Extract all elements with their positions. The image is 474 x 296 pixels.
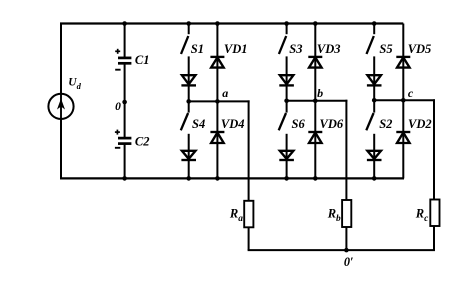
svg-text:VD5: VD5 xyxy=(408,42,432,56)
wire node a to VD4 xyxy=(216,101,218,143)
wire S4 to series diode xyxy=(188,134,190,161)
svg-text:S5: S5 xyxy=(379,42,392,56)
junction top rail / S3 xyxy=(284,21,289,26)
svg-text:VD2: VD2 xyxy=(408,117,432,131)
svg-text:0′: 0′ xyxy=(344,255,354,269)
label S6 xyxy=(292,117,306,131)
wire Ra to neutral xyxy=(248,227,250,250)
label Rb xyxy=(327,207,341,225)
wire VD2 to bottom rail xyxy=(402,143,404,178)
label VD2 xyxy=(408,117,432,131)
label VD5 xyxy=(408,42,432,56)
svg-text:C1: C1 xyxy=(135,53,150,67)
wire top DC rail xyxy=(60,22,403,24)
label 0' xyxy=(344,255,354,269)
junction top rail / capacitor branch xyxy=(122,21,127,26)
wire series diode to node a xyxy=(188,85,190,101)
wire top rail to VD1 xyxy=(216,24,218,69)
switch S2 xyxy=(366,100,374,130)
label node c xyxy=(408,86,414,100)
svg-text:S2: S2 xyxy=(379,117,392,131)
junction bottom rail / S4 branch xyxy=(186,176,191,181)
C1 polarity marks + and - xyxy=(115,49,120,70)
label S2 xyxy=(379,117,392,131)
wire series diode to bottom rail xyxy=(286,160,288,178)
label node b xyxy=(317,86,323,100)
svg-text:S1: S1 xyxy=(191,42,204,56)
svg-text:a: a xyxy=(222,86,228,100)
resistor Ra xyxy=(244,201,253,228)
label S5 xyxy=(379,42,392,56)
switch S4 xyxy=(181,101,189,130)
wire C2 to bottom rail xyxy=(124,144,126,179)
svg-text:Ud: Ud xyxy=(68,77,81,92)
resistor Rc xyxy=(430,200,439,227)
label Rc xyxy=(415,207,429,225)
label VD6 xyxy=(320,117,344,131)
diode in series with S5 xyxy=(367,75,382,85)
wire series diode to node b xyxy=(286,85,288,100)
diode VD6 (freewheeling, points up) xyxy=(308,132,322,143)
wire node c down to Rc xyxy=(433,99,435,199)
label VD1 xyxy=(224,42,248,56)
diode in series with S6 xyxy=(279,151,294,160)
wire S3 to series diode xyxy=(286,56,288,86)
C2 polarity marks + and - xyxy=(115,130,120,148)
node 0 (capacitor midpoint) xyxy=(122,100,127,105)
wire node c (output row) xyxy=(374,99,435,101)
svg-text:S4: S4 xyxy=(192,117,205,131)
label S1 xyxy=(191,42,204,56)
wire S1 to series diode xyxy=(188,56,190,86)
junction bottom rail / S6 branch xyxy=(284,176,289,181)
wire top rail to C1 xyxy=(124,24,126,59)
svg-text:S6: S6 xyxy=(292,117,306,131)
junction node b at diode branch xyxy=(313,99,318,104)
label Ra xyxy=(229,207,243,225)
svg-text:VD3: VD3 xyxy=(317,42,341,56)
junction bottom rail / VD6 branch xyxy=(313,176,318,181)
wire S6 to series diode xyxy=(286,134,288,161)
diode VD2 (freewheeling, points up) xyxy=(396,132,410,143)
wire VD6 to bottom rail xyxy=(314,143,316,178)
capacitor C1 xyxy=(118,58,131,63)
junction neutral / Rb xyxy=(344,248,349,253)
diode VD1 (freewheeling, points up) xyxy=(210,57,224,68)
junction bottom rail / capacitor branch xyxy=(122,176,127,181)
diode in series with S4 xyxy=(181,151,196,160)
wire series diode to bottom rail xyxy=(188,160,190,178)
junction bottom rail / S2 branch xyxy=(372,176,377,181)
switch S6 xyxy=(279,101,287,131)
diode VD4 (freewheeling, points up) xyxy=(210,132,224,143)
resistor Rb xyxy=(342,200,351,227)
switch S5 xyxy=(367,24,375,55)
svg-text:S3: S3 xyxy=(289,42,302,56)
switch S1 xyxy=(181,24,189,55)
capacitor C2 xyxy=(118,138,131,144)
label C1 xyxy=(135,53,150,67)
junction node c at switch branch xyxy=(372,98,377,103)
svg-text:VD1: VD1 xyxy=(224,42,248,56)
source Ud (DC source, circle with up arrow) xyxy=(48,94,73,119)
diode in series with S2 xyxy=(367,151,382,160)
wire bottom DC rail xyxy=(60,177,404,179)
diode in series with S1 xyxy=(181,75,196,85)
wire S5 to series diode xyxy=(373,56,375,86)
wire neutral 0' xyxy=(248,249,435,251)
wire C1 to C2 xyxy=(124,63,126,138)
label C2 xyxy=(135,135,150,149)
wire node b (output row) xyxy=(287,100,348,102)
wire node c to VD2 xyxy=(402,100,404,143)
svg-text:b: b xyxy=(317,86,323,100)
svg-text:Ra: Ra xyxy=(229,207,243,225)
label VD3 xyxy=(317,42,341,56)
label VD4 xyxy=(221,117,245,131)
junction bottom rail / VD4 branch xyxy=(215,176,220,181)
diode in series with S3 xyxy=(279,75,294,85)
junction top rail / VD1 xyxy=(215,21,220,26)
wire VD1 to node a xyxy=(216,68,218,102)
diode VD3 (freewheeling, points up) xyxy=(308,57,322,68)
wire Rc to neutral xyxy=(433,226,435,250)
svg-text:C2: C2 xyxy=(135,135,150,149)
wire series diode to node c xyxy=(373,85,375,100)
junction top rail / S1 xyxy=(186,21,191,26)
wire VD3 to node b xyxy=(314,68,316,101)
label 0 xyxy=(115,101,121,113)
junction top rail / S5 xyxy=(372,21,377,26)
wire S2 to series diode xyxy=(373,134,375,161)
junction node b at switch branch xyxy=(284,99,289,104)
junction node a at diode branch xyxy=(215,99,220,104)
label S4 xyxy=(192,117,205,131)
junction node c at diode branch xyxy=(401,98,406,103)
svg-text:VD4: VD4 xyxy=(221,117,245,131)
label node a xyxy=(222,86,228,100)
wire node b to VD6 xyxy=(314,101,316,144)
wire node a (output row) xyxy=(189,100,250,102)
diode VD5 (freewheeling, points up) xyxy=(396,57,410,68)
svg-text:Rc: Rc xyxy=(415,207,429,225)
junction top rail / VD3 xyxy=(313,21,318,26)
switch S3 xyxy=(279,24,287,55)
svg-text:VD6: VD6 xyxy=(320,117,344,131)
wire Rb to neutral xyxy=(345,227,347,250)
wire top rail to VD3 xyxy=(314,24,316,69)
wire series diode to bottom rail xyxy=(373,160,375,178)
junction node a at switch branch xyxy=(186,99,191,104)
wire VD5 to node c xyxy=(402,68,404,101)
label Ud xyxy=(68,77,81,92)
wire VD4 to bottom rail xyxy=(216,143,218,178)
label S3 xyxy=(289,42,302,56)
wire node a down to Ra xyxy=(248,100,250,200)
wire left branch (source) xyxy=(60,24,62,179)
svg-text:0: 0 xyxy=(115,101,121,113)
wire top rail to VD5 xyxy=(402,24,404,69)
svg-text:c: c xyxy=(408,86,414,100)
svg-text:Rb: Rb xyxy=(327,207,341,225)
wire node b down to Rb xyxy=(345,100,347,200)
